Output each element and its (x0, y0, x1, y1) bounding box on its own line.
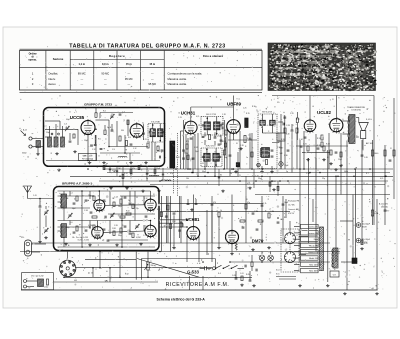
svg-text:R.31: R.31 (317, 138, 321, 140)
svg-text:0,25: 0,25 (96, 205, 99, 207)
svg-text:Gamma OC: Gamma OC (308, 227, 319, 229)
svg-text:RICEVITORE A.M F.M.: RICEVITORE A.M F.M. (166, 282, 230, 288)
keyboard contact strip (320, 227, 324, 271)
svg-text:0,1: 0,1 (102, 240, 104, 242)
tube DM70 (226, 229, 239, 245)
left-of-UCL82 details (277, 133, 285, 141)
svg-text:47k: 47k (132, 168, 135, 170)
svg-text:R.5: R.5 (98, 139, 101, 141)
tuning gang dashed link (177, 133, 179, 196)
svg-text:250 mA: 250 mA (381, 205, 388, 208)
svg-text:—: — (80, 83, 83, 86)
svg-text:L.6: L.6 (70, 222, 73, 224)
svg-text:GRUPPO F.M. 2723: GRUPPO F.M. 2723 (84, 102, 112, 106)
svg-text:5n: 5n (169, 203, 171, 205)
svg-text:89 MC: 89 MC (78, 71, 86, 75)
svg-text:C.31: C.31 (306, 173, 310, 175)
wave-change switch (281, 229, 299, 272)
svg-text:C.12: C.12 (92, 149, 96, 151)
svg-text:10k: 10k (186, 178, 189, 180)
svg-text:50µF: 50µF (66, 119, 70, 121)
svg-text:R.15: R.15 (246, 113, 250, 115)
svg-text:S.15: S.15 (276, 274, 279, 276)
svg-text:350V: 350V (362, 226, 367, 228)
MF2 feed wiring (187, 138, 189, 169)
tube UCL82 pentode (330, 117, 343, 133)
svg-text:22p: 22p (322, 178, 325, 180)
svg-text:C.31: C.31 (303, 144, 307, 146)
svg-text:4,7k: 4,7k (175, 211, 178, 213)
svg-text:4,7: 4,7 (277, 98, 279, 100)
svg-text:4,7k: 4,7k (380, 178, 383, 180)
aux bus near G533 (142, 258, 216, 260)
svg-text:10,7 MC: 10,7 MC (288, 205, 295, 207)
middle band components (103, 166, 105, 169)
svg-text:Gamma OM: Gamma OM (308, 233, 319, 235)
svg-text:Oscillat.: Oscillat. (48, 71, 58, 75)
volume potentiometer (147, 262, 149, 270)
svg-text:330: 330 (157, 151, 160, 153)
svg-text:470: 470 (213, 202, 216, 204)
svg-text:—: — (80, 78, 83, 81)
svg-text:47p: 47p (247, 202, 250, 204)
svg-text:Commut. AM: Commut. AM (288, 208, 299, 211)
bottom buses (20, 251, 340, 253)
svg-text:2n: 2n (230, 173, 232, 175)
svg-text:4,7k: 4,7k (263, 203, 266, 205)
svg-text:1,1 m: 1,1 m (79, 62, 86, 66)
svg-text:S.14: S.14 (276, 270, 279, 272)
svg-text:C.18: C.18 (222, 114, 226, 116)
svg-text:C.8: C.8 (52, 146, 55, 148)
svg-text:Schema elettrico del G 233-A: Schema elettrico del G 233-A (157, 297, 206, 301)
svg-text:L.7: L.7 (117, 162, 119, 164)
svg-text:47p: 47p (170, 173, 173, 175)
svg-text:C.29: C.29 (290, 113, 294, 115)
svg-text:5p: 5p (107, 127, 109, 129)
svg-text:25µF: 25µF (258, 178, 262, 180)
svg-text:Rivelatore FM: Rivelatore FM (288, 200, 300, 203)
svg-text:15 m: 15 m (149, 62, 156, 66)
svg-text:25µF: 25µF (46, 132, 50, 134)
svg-text:47k: 47k (130, 174, 133, 176)
FM top rail (100, 112, 133, 114)
svg-text:0,2: 0,2 (327, 157, 329, 159)
AF coils (62, 194, 67, 208)
bottom mid frame & diagonal (141, 259, 143, 280)
svg-text:UBF89: UBF89 (227, 102, 241, 107)
mains plug (200, 266, 212, 270)
detector parts (244, 135, 246, 142)
AF extra lattice (58, 195, 94, 197)
choke coil (333, 248, 338, 268)
svg-text:UCL82: UCL82 (317, 110, 331, 115)
svg-text:C.12: C.12 (133, 148, 137, 150)
FM note box (79, 153, 97, 160)
svg-text:4,7k: 4,7k (196, 116, 199, 118)
svg-text:C.45: C.45 (364, 157, 368, 159)
svg-text:A 12-150V: A 12-150V (379, 203, 389, 206)
speaker AP163 (359, 123, 369, 131)
svg-text:6: 6 (56, 279, 57, 281)
svg-text:95 MC: 95 MC (125, 77, 133, 81)
svg-text:C.54: C.54 (172, 221, 176, 223)
svg-text:95 MC: 95 MC (148, 82, 156, 86)
svg-text:UCH81: UCH81 (181, 111, 196, 116)
svg-text:C.8: C.8 (102, 210, 105, 212)
svg-text:1k: 1k (220, 210, 222, 212)
svg-text:R.40: R.40 (375, 153, 379, 155)
shield bar (170, 141, 175, 168)
svg-text:C.23: C.23 (143, 235, 147, 237)
svg-text:500p: 500p (344, 171, 348, 173)
svg-text:10k: 10k (146, 228, 149, 230)
svg-text:C.21: C.21 (217, 136, 221, 138)
misc bottom wires (119, 252, 121, 278)
FM small parts (119, 136, 121, 141)
NTC resistor (352, 258, 357, 264)
svg-text:TRASFORMATORE: TRASFORMATORE (347, 106, 366, 109)
svg-text:GRUPPO A.F. 2680-1: GRUPPO A.F. 2680-1 (62, 181, 92, 185)
calibration table (20, 51, 263, 91)
svg-text:C.34: C.34 (299, 139, 303, 141)
svg-text:R.16: R.16 (252, 106, 256, 108)
tube UCL82 triode (304, 119, 316, 134)
svg-text:D’USCITA: D’USCITA (351, 109, 361, 112)
svg-text:1n: 1n (105, 164, 107, 166)
svg-text:C.36: C.36 (277, 147, 281, 149)
svg-text:S, 41G: S, 41G (366, 119, 372, 121)
svg-text:C.20: C.20 (114, 225, 118, 227)
RF choke coils on buses (149, 175, 159, 176)
svg-text:C.61: C.61 (240, 273, 244, 275)
svg-text:S.2718: S.2718 (153, 122, 159, 124)
svg-text:2n: 2n (128, 200, 130, 202)
svg-text:1n: 1n (246, 157, 248, 159)
svg-text:Gamma FM: Gamma FM (308, 252, 318, 254)
svg-text:5p: 5p (286, 171, 288, 173)
svg-text:C.30: C.30 (284, 155, 288, 157)
svg-text:—: — (127, 72, 130, 75)
svg-text:UCC85: UCC85 (70, 115, 85, 120)
svg-text:25µF: 25µF (195, 151, 199, 153)
svg-text:M.F.2 2719: M.F.2 2719 (206, 146, 216, 148)
svg-text:G.234 - G.235: G.234 - G.235 (78, 240, 89, 242)
svg-text:R.51: R.51 (157, 209, 161, 211)
svg-text:L.1: L.1 (44, 126, 47, 128)
svg-text:C.12: C.12 (144, 198, 147, 200)
svg-text:L.4: L.4 (70, 193, 73, 195)
svg-text:25µF: 25µF (156, 168, 160, 170)
svg-text:22p: 22p (136, 208, 139, 210)
misc right-bottom wires (340, 220, 353, 222)
svg-text:Per i tipi G.233: Per i tipi G.233 (76, 236, 88, 239)
svg-text:5p: 5p (146, 178, 148, 180)
bus lines middle band (104, 168, 393, 170)
svg-text:Fino a ottenere: Fino a ottenere (203, 54, 223, 58)
svg-text:S.4: S.4 (218, 273, 221, 275)
AF tubes (94, 198, 105, 212)
svg-text:500p: 500p (118, 235, 122, 237)
svg-text:R.2: R.2 (103, 111, 106, 113)
svg-text:R.12: R.12 (176, 157, 180, 159)
svg-text:—: — (127, 83, 130, 86)
svg-text:C.13: C.13 (178, 117, 182, 119)
AM antenna (24, 186, 32, 199)
svg-text:—: — (151, 78, 154, 81)
svg-text:C.24: C.24 (194, 147, 198, 149)
svg-text:Massima uscita.: Massima uscita. (168, 77, 188, 81)
svg-text:Massima uscita.: Massima uscita. (168, 82, 188, 86)
svg-text:25µF: 25µF (338, 159, 342, 161)
svg-text:0,1M: 0,1M (270, 211, 274, 213)
AM coupling meander (159, 219, 187, 221)
junction dots on buses (87, 168, 89, 170)
svg-text:Scala FM: Scala FM (310, 246, 318, 248)
svg-text:A.24: A.24 (23, 129, 27, 132)
band band extra caps (175, 168, 177, 170)
chassis photo (268, 43, 376, 91)
svg-text:M.F.3 2719: M.F.3 2719 (262, 111, 272, 113)
per-i-tipi box (22, 273, 54, 290)
right vertical wires (373, 96, 375, 226)
svg-text:100p: 100p (118, 206, 122, 208)
svg-text:C.3: C.3 (64, 124, 67, 126)
parts right of plug (235, 277, 238, 279)
dial lamps (259, 255, 265, 261)
svg-text:R.6: R.6 (128, 137, 131, 139)
svg-text:Rete 110V: Rete 110V (309, 263, 319, 266)
coupling parts UBF89->UCL82 (300, 145, 303, 147)
tube UCC85 triode 1 (81, 119, 95, 136)
fuse (371, 210, 373, 216)
svg-text:Regolare: Regolare (109, 54, 125, 58)
svg-text:—: — (104, 78, 107, 81)
svg-text:0,9 m: 0,9 m (102, 62, 109, 66)
svg-text:330: 330 (121, 130, 124, 132)
svg-text:Per i tipi G.232: Per i tipi G.232 (31, 275, 43, 278)
fan of verticals left of UCH81-2 (161, 196, 163, 252)
tube UCC85 triode 2 (130, 122, 143, 139)
svg-text:Interv.: Interv. (48, 77, 56, 81)
svg-text:0,22M: 0,22M (136, 237, 141, 239)
svg-text:4,12V: 4,12V (362, 242, 368, 244)
FM wires (45, 128, 78, 130)
svg-text:Fono: Fono (314, 239, 318, 241)
svg-text:C.25: C.25 (243, 108, 247, 110)
svg-text:470 5%: 470 5% (288, 213, 294, 215)
FM antenna input terminals (29, 137, 32, 140)
UR box (330, 271, 339, 277)
svg-text:U.R.: U.R. (333, 274, 337, 276)
svg-text:1: 1 (78, 261, 79, 263)
svg-text:R.62: R.62 (125, 274, 129, 276)
svg-text:R.24: R.24 (124, 173, 128, 175)
svg-text:10k: 10k (72, 237, 75, 239)
svg-text:25µF: 25µF (285, 165, 289, 167)
svg-text:C.31: C.31 (255, 175, 259, 177)
AF box extra detail (58, 201, 62, 203)
svg-text:90 MC: 90 MC (101, 71, 109, 75)
svg-text:R.7: R.7 (366, 173, 369, 175)
svg-text:403: 403 (74, 280, 77, 282)
svg-text:50p: 50p (224, 157, 227, 159)
svg-text:—: — (151, 72, 154, 75)
svg-text:L.512: L.512 (44, 287, 48, 289)
svg-text:15 m: 15 m (126, 62, 133, 66)
svg-text:25µF: 25µF (84, 140, 88, 142)
svg-text:C.63: C.63 (232, 275, 236, 277)
svg-text:TABELLA DI TARATURA DEL GRUPPO: TABELLA DI TARATURA DEL GRUPPO M.A.F. N.… (69, 44, 226, 50)
svg-text:R.7: R.7 (387, 211, 390, 213)
svg-text:300Ω: 300Ω (22, 153, 27, 155)
extra IF strip wiring (183, 120, 185, 169)
svg-text:2,2M: 2,2M (254, 211, 258, 213)
svg-text:82: 82 (220, 174, 222, 176)
FM input filter coils (48, 137, 52, 147)
svg-text:R.65: R.65 (246, 274, 250, 276)
ratio detector transformer (262, 148, 270, 158)
svg-text:56: 56 (111, 166, 113, 168)
svg-text:Sezione: Sezione (53, 57, 64, 61)
svg-text:32+32µF: 32+32µF (362, 239, 371, 241)
svg-text:—: — (104, 83, 107, 86)
svg-text:operaz.: operaz. (28, 59, 37, 62)
svg-text:UCH81: UCH81 (186, 217, 200, 222)
svg-text:C.14: C.14 (114, 197, 118, 199)
svg-text:M.F.1 2718: M.F.1 2718 (206, 114, 216, 116)
svg-text:C.28: C.28 (286, 125, 290, 127)
tube socket bottom view (59, 260, 75, 276)
svg-text:Rete 160V: Rete 160V (309, 270, 319, 273)
svg-text:C.41: C.41 (33, 195, 37, 197)
svg-text:C.16: C.16 (84, 210, 88, 212)
svg-text:50+50µF: 50+50µF (362, 224, 371, 226)
pickup connector (25, 240, 32, 256)
svg-text:4,7k: 4,7k (247, 183, 250, 185)
svg-text:1M log: 1M log (151, 265, 156, 267)
electrolytic capacitors (356, 223, 361, 228)
AF wires (58, 190, 151, 192)
svg-text:R.28: R.28 (326, 144, 330, 146)
svg-text:P.U.: P.U. (21, 237, 25, 239)
svg-text:Aereo: Aereo (48, 82, 56, 86)
svg-text:C.9: C.9 (112, 149, 115, 151)
svg-text:Modul. MF: Modul. MF (309, 258, 319, 260)
AF parts (76, 196, 78, 201)
FM box extra detail (45, 120, 60, 122)
detector/AGC column parts (167, 205, 169, 210)
parts between MF1 MF2 (202, 136, 205, 138)
svg-text:0,1: 0,1 (140, 164, 142, 166)
